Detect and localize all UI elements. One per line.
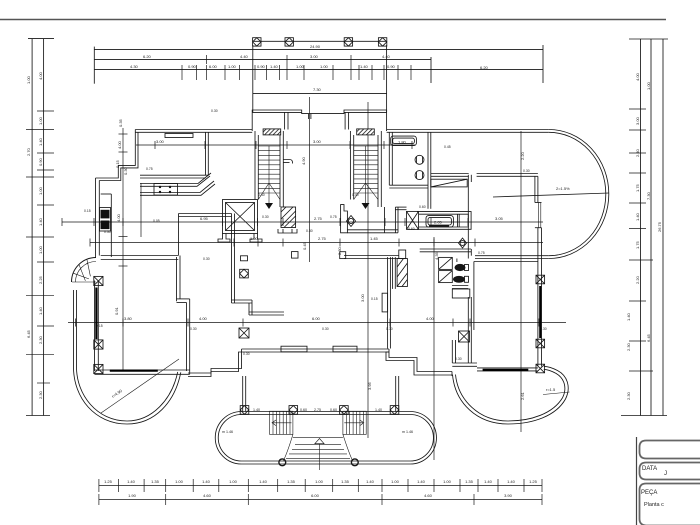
svg-text:0.90: 0.90 (257, 64, 266, 69)
LAYER: top dimension block (94, 38, 543, 112)
svg-text:6.20: 6.20 (480, 65, 489, 70)
top dim texts (130, 44, 489, 92)
svg-text:0.30: 0.30 (386, 327, 393, 331)
ticks on line C (207, 55, 351, 80)
svg-text:2.05: 2.05 (434, 220, 443, 225)
thick window lines BL (96, 288, 157, 371)
BR terrace arc (453, 366, 569, 424)
svg-text:4.60: 4.60 (424, 493, 433, 498)
LAYER: right dimension block (621, 39, 668, 416)
svg-text:1.25: 1.25 (104, 479, 113, 484)
wall segment below center (344, 255, 399, 257)
svg-text:1.00: 1.00 (296, 64, 305, 69)
toilets (415, 155, 424, 164)
svg-text:0.30: 0.30 (243, 352, 250, 356)
LAYER: left dimension block (26, 39, 54, 416)
svg-text:1.35: 1.35 (287, 479, 296, 484)
right step flight (343, 411, 366, 434)
svg-text:2.70: 2.70 (26, 147, 31, 156)
right wall of building below lobe (537, 228, 539, 367)
LAYER: left edge wall and upper-left wing (96, 130, 285, 316)
svg-text:1.40: 1.40 (507, 479, 516, 484)
svg-text:1.40: 1.40 (202, 479, 211, 484)
svg-text:0.45: 0.45 (302, 241, 307, 250)
svg-text:1.00: 1.00 (229, 479, 238, 484)
svg-text:0.60: 0.60 (330, 408, 337, 412)
svg-text:1.00: 1.00 (38, 245, 43, 254)
BL terrace arc (74, 290, 181, 424)
svg-text:4.00: 4.00 (199, 316, 208, 321)
svg-text:3.90: 3.90 (504, 493, 513, 498)
svg-text:r=4.90: r=4.90 (111, 388, 124, 399)
svg-text:0.45: 0.45 (444, 145, 451, 149)
svg-text:1.40: 1.40 (38, 217, 43, 226)
left jog to BL room (188, 349, 242, 373)
small cross ticks on interior dim lines (61, 218, 63, 226)
svg-text:6.45: 6.45 (26, 329, 31, 338)
svg-text:1.40: 1.40 (417, 479, 426, 484)
svg-text:m 1.46: m 1.46 (402, 430, 413, 434)
right jog (389, 349, 452, 372)
LAYER: left core elevator + stair (165, 131, 297, 242)
svg-text:1.40: 1.40 (360, 64, 369, 69)
svg-text:1.00: 1.00 (228, 64, 237, 69)
top rule (0, 19, 666, 21)
LAYER: bottom right rooms (420, 249, 545, 373)
walls (388, 132, 390, 185)
svg-text:2.20: 2.20 (635, 275, 640, 284)
svg-text:0.15: 0.15 (115, 159, 120, 168)
D lobe right balcony (549, 130, 609, 259)
svg-text:4.40: 4.40 (240, 54, 249, 59)
svg-text:2.30: 2.30 (626, 391, 631, 400)
svg-text:2.30: 2.30 (626, 342, 631, 351)
svg-text:1.00: 1.00 (38, 186, 43, 195)
svg-text:1.40: 1.40 (635, 212, 640, 221)
treads left stair (258, 146, 280, 193)
hatched column below stair (281, 207, 296, 228)
column squares top (253, 38, 387, 46)
svg-text:4.00: 4.00 (426, 316, 435, 321)
BL room walls (94, 281, 96, 372)
bathtub top (391, 136, 417, 146)
svg-text:1.40: 1.40 (626, 312, 631, 321)
svg-text:1.40: 1.40 (366, 479, 375, 484)
svg-text:0.30: 0.30 (211, 109, 218, 113)
ticks on line D (182, 65, 411, 80)
svg-text:3.05: 3.05 (495, 216, 504, 221)
svg-text:0.30: 0.30 (322, 327, 329, 331)
svg-text:0.30: 0.30 (523, 169, 530, 173)
svg-text:2.61: 2.61 (520, 391, 525, 400)
svg-text:0.75: 0.75 (478, 251, 485, 255)
svg-text:0.30: 0.30 (203, 257, 210, 261)
svg-text:PEÇA: PEÇA (641, 490, 657, 496)
svg-text:1.35: 1.35 (341, 479, 350, 484)
stoop quarter-round with steps (72, 258, 97, 283)
svg-text:1.40: 1.40 (259, 479, 268, 484)
bathroom 2 room with tub (417, 212, 471, 230)
svg-text:0.90: 0.90 (188, 64, 197, 69)
svg-text:1.00: 1.00 (38, 116, 43, 125)
svg-text:24.90: 24.90 (310, 44, 321, 49)
svg-text:1.00: 1.00 (443, 479, 452, 484)
svg-text:3.00: 3.00 (635, 116, 640, 125)
svg-text:4.30: 4.30 (130, 64, 139, 69)
svg-text:Planta c: Planta c (644, 502, 664, 508)
svg-text:3.00: 3.00 (360, 293, 365, 302)
svg-text:0.30: 0.30 (262, 215, 269, 219)
svg-text:2.25: 2.25 (38, 275, 43, 284)
svg-text:4.60: 4.60 (203, 493, 212, 498)
svg-text:2.30: 2.30 (38, 390, 43, 399)
svg-text:1.00: 1.00 (26, 75, 31, 84)
slope leader in balcony (493, 193, 609, 197)
svg-text:1.40: 1.40 (375, 408, 382, 412)
svg-text:6.20: 6.20 (143, 54, 152, 59)
svg-text:1.90: 1.90 (128, 493, 137, 498)
svg-text:0.30: 0.30 (455, 357, 462, 361)
BR terrace top edge (477, 367, 538, 369)
LAYER: interior long dimension lines (62, 97, 566, 460)
svg-text:1.45: 1.45 (370, 236, 379, 241)
svg-text:2=1.5%: 2=1.5% (556, 186, 570, 191)
svg-text:1.00: 1.00 (320, 64, 329, 69)
angled corridor walls (140, 173, 211, 184)
svg-text:6.00: 6.00 (311, 493, 320, 498)
svg-text:4.00: 4.00 (117, 140, 122, 149)
svg-text:0.60: 0.60 (300, 408, 307, 412)
left stair walls (254, 131, 256, 200)
LAYER: title block (637, 437, 700, 525)
svg-text:m 1.46: m 1.46 (222, 430, 233, 434)
svg-text:26.75: 26.75 (657, 221, 662, 232)
svg-text:0.90: 0.90 (38, 157, 43, 166)
svg-text:0.30: 0.30 (306, 229, 313, 233)
svg-text:1.80: 1.80 (398, 140, 407, 145)
scattered small wall labels (84, 109, 547, 361)
kitchen room inner walls (205, 132, 207, 175)
svg-text:6.45: 6.45 (646, 333, 651, 342)
top wall left wing (135, 129, 252, 131)
left step flight (270, 411, 293, 434)
svg-text:2.75: 2.75 (318, 236, 327, 241)
svg-text:1.00: 1.00 (175, 479, 184, 484)
wc below right stair (341, 205, 348, 233)
svg-text:3.80: 3.80 (124, 316, 133, 321)
svg-text:0.15: 0.15 (84, 209, 91, 213)
svg-text:0.15: 0.15 (371, 297, 378, 301)
svg-text:1.35: 1.35 (151, 479, 160, 484)
radius annotation (101, 359, 179, 413)
flanges below elevator (218, 234, 230, 243)
svg-text:4.90: 4.90 (301, 156, 306, 165)
top bump (252, 110, 386, 131)
thick window on right wall (539, 286, 541, 338)
LAYER: building outline (135, 110, 609, 464)
kitchen sink 4-dot box (154, 184, 178, 196)
svg-text:1.35: 1.35 (465, 479, 474, 484)
LAYER: misc columns and ticks inside plan (239, 256, 470, 342)
porch columns (240, 406, 399, 466)
porch outer (215, 412, 436, 465)
LAYER: bottom dimension block (99, 479, 542, 505)
toilet + bidet (453, 264, 466, 283)
svg-text:1.40: 1.40 (38, 137, 43, 146)
svg-text:2.30: 2.30 (38, 335, 43, 344)
window sill under kitchen top wall (165, 134, 193, 138)
LAYER: right core stair + wc (341, 131, 407, 233)
svg-text:1.40: 1.40 (127, 479, 136, 484)
X column (407, 211, 419, 229)
black shaft blocks (101, 210, 110, 229)
svg-text:2.75: 2.75 (314, 216, 323, 221)
svg-text:1.75: 1.75 (635, 183, 640, 192)
wall down (467, 175, 469, 259)
center fan steps (284, 434, 353, 470)
svg-text:7.30: 7.30 (646, 191, 651, 200)
svg-text:3.95: 3.95 (367, 381, 372, 390)
bidet (459, 238, 467, 248)
BL terrace columns (94, 276, 103, 373)
svg-text:0.05: 0.05 (153, 219, 160, 223)
svg-text:4.00: 4.00 (38, 71, 43, 80)
LAYER: porch details (222, 406, 413, 470)
thick window on BR terrace (483, 369, 529, 371)
svg-text:4.00: 4.00 (116, 213, 121, 222)
ramp rect with diagonal (431, 179, 467, 187)
step to top-left corner (96, 130, 136, 179)
svg-text:1.00: 1.00 (391, 479, 400, 484)
hatched column (397, 259, 407, 287)
window in right wall (538, 203, 540, 228)
svg-text:1.00: 1.00 (315, 479, 324, 484)
svg-text:3.00: 3.00 (156, 139, 165, 144)
svg-text:3.00: 3.00 (310, 54, 319, 59)
BR radius annotation (543, 392, 570, 395)
columns on right wall (536, 275, 545, 373)
svg-text:1.75: 1.75 (635, 240, 640, 249)
svg-text:1.40: 1.40 (484, 479, 493, 484)
svg-text:1.25: 1.25 (529, 479, 538, 484)
svg-text:0.60: 0.60 (419, 205, 426, 209)
svg-text:2.40: 2.40 (635, 148, 640, 157)
bottom band of building with notches (242, 348, 390, 350)
shaft down (387, 257, 389, 348)
svg-text:0.91: 0.91 (114, 306, 119, 315)
top wall right wing (387, 129, 549, 131)
svg-text:1.40: 1.40 (38, 306, 43, 315)
svg-text:0.75: 0.75 (146, 167, 153, 171)
LAYER: bottom-left room and terrace (72, 256, 190, 425)
LAYER: right wing bath rooms (292, 132, 610, 348)
svg-text:DATA: DATA (642, 466, 657, 472)
corridor wall mid (231, 214, 233, 304)
door tab right of left stair (283, 160, 292, 164)
svg-text:2.20: 2.20 (520, 151, 525, 160)
svg-text:1.00: 1.00 (646, 81, 651, 90)
svg-text:4.00: 4.00 (635, 72, 640, 81)
svg-text:6.00: 6.00 (209, 64, 218, 69)
svg-text:4.40: 4.40 (382, 54, 391, 59)
svg-text:J: J (664, 471, 667, 477)
svg-text:1.40: 1.40 (253, 408, 260, 412)
svg-text:0.90: 0.90 (387, 64, 396, 69)
svg-text:7.30: 7.30 (313, 87, 322, 92)
shower boxes (439, 257, 453, 269)
svg-text:6.00: 6.00 (312, 316, 321, 321)
svg-text:2.75: 2.75 (314, 408, 321, 412)
svg-text:0.35: 0.35 (118, 118, 123, 127)
svg-text:r=1.5: r=1.5 (546, 387, 556, 392)
hatched wall blocks at stair entries (263, 129, 281, 135)
porch side walls up to building (242, 376, 244, 412)
svg-text:0.75: 0.75 (330, 215, 337, 219)
svg-text:3.00: 3.00 (313, 139, 322, 144)
svg-text:1.40: 1.40 (270, 64, 279, 69)
svg-text:0.30: 0.30 (190, 327, 197, 331)
